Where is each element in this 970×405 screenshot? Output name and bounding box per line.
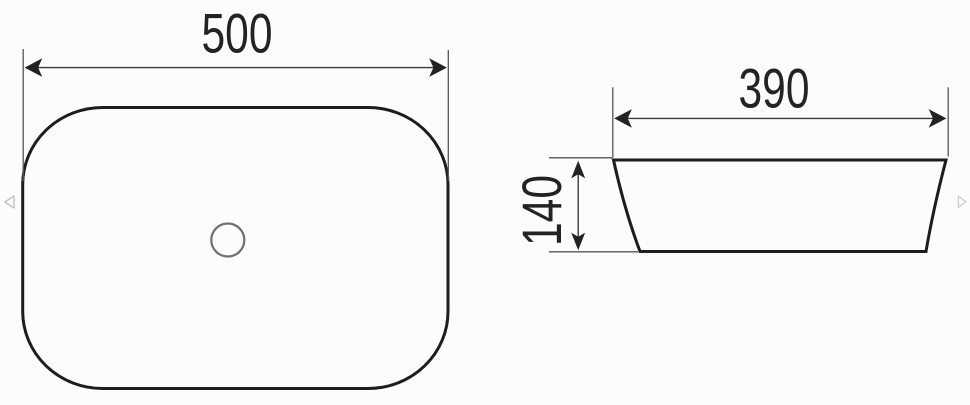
- arrowhead 390 left: [614, 109, 632, 128]
- extension line 140 bottom: [549, 251, 638, 253]
- dimension line 390: [625, 117, 936, 119]
- extension line 500 left: [22, 49, 24, 181]
- extension line 140 top: [549, 157, 612, 159]
- basin top view outline: [23, 108, 448, 389]
- dimension line 500: [36, 67, 435, 69]
- arrowhead 500 left: [25, 58, 43, 77]
- svg-text:500: 500: [202, 1, 273, 64]
- arrowhead 140 top: [571, 161, 585, 179]
- dimension line 140: [577, 167, 579, 244]
- carousel arrow left: [5, 196, 14, 208]
- arrowhead 390 right: [929, 109, 947, 128]
- carousel arrow right: [958, 196, 965, 207]
- extension line 390 right: [947, 87, 949, 156]
- extension line 390 left: [612, 87, 614, 158]
- extension line 500 right: [447, 50, 449, 181]
- arrowhead 500 right: [429, 58, 447, 77]
- basin side view outline: [614, 160, 947, 252]
- drain circle: [211, 224, 244, 257]
- svg-text:140: 140: [510, 175, 573, 246]
- arrowhead 140 bottom: [571, 233, 585, 251]
- svg-text:390: 390: [739, 56, 810, 119]
